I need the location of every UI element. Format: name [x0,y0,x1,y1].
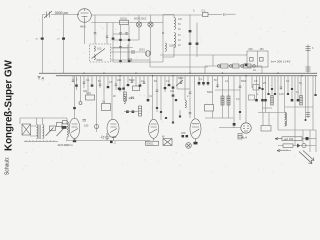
wire vertical x42.5 (antenna lead) [42,15,44,74]
mains wire 2 [278,145,316,147]
wire drop x246 to tube V5 [245,76,247,123]
antenna coil ladder vertical x163 [162,15,164,63]
resistor box row1 [221,64,229,68]
wire coil top connect [163,15,174,58]
wire y107 right [285,106,313,108]
resistor box dial a [50,126,56,130]
capacitor blob x92 [91,85,94,87]
cap blob at rail x111 [110,141,113,143]
wire drop x161 [160,76,162,120]
row wire y66 [205,65,262,67]
resistor vertical hatched x222.5 [221,96,224,105]
riser to lamp L1 [139,15,151,22]
blob x176 [175,99,177,101]
wire drop x165 [164,76,166,92]
contact circle S2 [230,65,233,68]
variable arrow at y84 [176,80,183,86]
wire drop x112 (to tube V2) [111,76,113,119]
wire drop x124 [123,76,125,96]
wire drop x262.5 [262,76,264,113]
junction dot x163 [162,32,164,34]
capacitor blob x128 [127,84,130,86]
capacitor blob x165 [164,87,167,89]
wire drop x100 [99,76,101,88]
svg-text:500: 500 [249,48,254,51]
resistor box B2a [133,86,140,91]
resistor box row2 [233,64,240,68]
wire drop x199 [198,76,200,86]
mains feed arrow [275,138,282,140]
capacitor blob x113 [112,38,115,40]
lamp drop extensions [139,33,151,55]
bead x262.5 [261,88,263,90]
beads on row y40 [119,39,130,41]
cathode blob V2 [73,140,76,142]
tube V6 output (top view circle) [241,123,251,133]
tap value labels [178,18,183,47]
wire plate of V1 to right [91,14,202,16]
resistor box dial b [57,123,63,127]
wire drop x313 [312,76,314,130]
mains wire 3 [277,150,291,152]
wire drop x84 [83,76,85,88]
tube V1 mixer (top circle) [78,9,92,23]
wire osc to right y60 [111,59,151,61]
capacitor x217.5 [216,85,219,86]
wire y90 mid [215,89,240,91]
capacitor blob x262.5 [261,99,264,101]
contact circle S3 [241,65,244,68]
capacitor blob x208 [207,82,210,84]
capacitor blob x140 [139,85,142,87]
tube V5 [190,119,201,142]
oscillator dashed box [90,44,111,62]
capacitor blob x203.5 [202,82,205,84]
wire osc to right y48 [111,47,129,49]
svg-text:50011: 50011 [147,142,155,146]
trimmer capacitor on antenna lead [35,38,44,41]
coil L-osc upper [94,46,95,51]
coil x185 [185,100,186,108]
wire x222.5 to row [222,105,224,118]
bead x166 low [165,117,167,119]
wire drop x212.5 [212,76,214,105]
resistor R-top (box at end of plate wire) [202,9,209,17]
resistor vertical hatched x125 [124,92,127,101]
lamp L2 (circle-cross) [148,22,153,27]
bead x161 low [160,111,162,113]
bead x268.5 [267,93,269,95]
wire row y118 mid [205,117,234,119]
wire drop x88 [87,76,89,95]
wire drop x177 [176,76,178,89]
switch row wire y55 [160,54,247,56]
trimmer capacitor on x63.5 lead [57,38,66,41]
wire drop x120 [119,76,121,92]
bead x315.5 [314,94,316,96]
marks near x184 [182,135,189,137]
dial scale line [24,141,58,143]
wire drop x136 [135,76,137,86]
resistor box under V4 [146,141,159,145]
variable arrow in osc box [92,49,106,59]
variable arrow dial a [46,128,54,137]
svg-text:100: 100 [97,47,102,51]
small tube symbol on x96.5 [95,125,99,129]
dark mark left of box [245,64,248,67]
wire drop x295 [294,76,296,130]
resistor vertical hatched x301 [300,96,303,106]
capacitor x157 [156,90,159,91]
vertical x303 lower [302,130,304,144]
wire vertical x190 [189,15,191,74]
blob under V5 [194,142,198,145]
resistor box B1a [86,92,95,100]
bead x173 lower [172,122,174,124]
scattered value labels band [76,77,302,85]
capacitor x240 [239,86,242,87]
capacitor C on x190 lower [189,43,192,45]
capacitor C-osc2 (on y60) [129,58,131,62]
trimmer T-osc (hatched circle) [145,51,151,57]
coupling box x252 lower [249,95,255,100]
wire drop x308 below bus [307,76,309,118]
wire drop x203.5 [203,76,205,86]
grid cap marks left of V2 [62,121,68,129]
capacitor x116 [115,84,118,85]
resistor vertical hatched x272 [271,96,274,106]
capacitor blob x234 low [233,123,236,126]
wire end segment [226,13,236,15]
svg-text:220: 220 [181,131,186,135]
capacitor blob x120 [119,88,122,90]
blob x173 low [172,95,175,97]
main bus upper [39,72,317,74]
capacitor C-ant (series, variable) [44,11,52,18]
wire drop x222.5 [222,76,224,106]
output transformer (two windings) [285,112,287,126]
ladder row y62 [113,61,163,63]
capacitor blob x173 [172,87,175,89]
capacitor on x107 [106,36,109,37]
wire drop x234 [233,76,235,128]
bias resistor under V6 [238,134,242,140]
capacitor x84 [83,82,86,83]
electrolytic bars on x308 low [306,113,310,117]
bead x240 low [239,111,241,113]
svg-text:AK2: AK2 [80,25,86,29]
vertical x295 lower [294,130,296,146]
svg-text:100: 100 [169,44,174,48]
capacitor on x95 [94,33,97,34]
wire drop x256.5 [256,76,258,101]
svg-text:gez 200: gez 200 [284,137,294,141]
wire drop x275 [274,76,276,95]
svg-text:20011: 20011 [120,17,128,21]
wire drop x76.5 [76,76,78,90]
coil x124 [124,96,125,104]
bead x259.5 [258,87,260,89]
svg-text:450: 450 [260,48,265,51]
svg-text:0,25: 0,25 [279,93,284,96]
wire drop x173 [172,76,174,90]
wire vertical x63.5 [63,15,65,74]
bead x157 low [156,107,158,109]
resistor R-screen (box on y22.5 row) [120,17,129,25]
voltage dropper box (gez 200) [282,137,302,141]
wire drop x74.5 to tube V2-grid [74,76,76,119]
wire drop x284.5 [284,76,286,112]
svg-text:Kongreß-Super GW: Kongreß-Super GW [4,59,15,151]
capacitor blob x169 [168,84,171,86]
wire drop x92 [91,76,93,86]
ladder row y47.5 [113,47,133,49]
contact square a [250,58,254,62]
wire drop x144 [143,76,145,84]
wire drop x194.5 to tube V4 [194,76,196,119]
capacitor x281 [280,87,283,88]
dial scale ticks [26,140,54,141]
wire x180? short [179,110,181,116]
wire coil leads [20,118,67,141]
wire drop x228.5 [228,76,230,106]
capacitor x132 [131,81,134,82]
wire drop x148 [147,76,149,99]
svg-text:Schaub:: Schaub: [5,157,11,175]
capacitor x181 [180,82,183,83]
wire screen row y22.5 [91,22,163,24]
wire drop x80.5 [80,76,82,102]
wire box to coil [30,126,37,136]
ground symbol mid [105,133,110,140]
capacitor C on x190 upper [189,30,192,32]
rectifier circle row2 [297,144,306,148]
capacitor blob x199 [198,82,201,84]
wire vertical x205 to bus [204,66,206,73]
IF pair marks x127-135 [126,111,134,113]
vertical x310 lower [309,130,311,152]
wire horizontal y130 right [278,129,313,131]
svg-text:A: A [41,77,45,81]
wire vertical x107 [106,23,108,45]
svg-text:300: 300 [83,90,88,93]
svg-text:5000: 5000 [178,77,184,80]
bead x292 [291,88,293,90]
wire drop x278 [277,76,279,130]
coil L-osc lower [94,55,95,60]
wire x96.5 long drop [96,76,98,132]
wire drop x132 [131,76,133,83]
capacitor blob x298 [297,99,300,101]
svg-text:5002 5002: 5002 5002 [134,17,147,21]
wire x173 extend [172,90,174,122]
wire drop x259.5 [259,76,261,89]
lamp drops [139,27,151,33]
resistor mains b [283,144,293,147]
svg-text:5000: 5000 [129,79,135,82]
bead x288 [287,93,289,95]
wire drop x265.5 [265,76,267,113]
svg-text:44,5-2000 m: 44,5-2000 m [58,143,74,147]
capacitor x100 [99,84,102,85]
wire drop x116 [115,76,117,90]
svg-text:,m: ,m [35,38,38,41]
bead x180 low [179,116,181,118]
ticks on wire3 [281,149,287,150]
wire drop x108 [107,76,109,88]
capacitor blob x76.5 [75,85,78,87]
wire vertical x95 [94,15,96,44]
wire drop x169 [168,76,170,86]
resistor box row3 [244,64,252,68]
svg-text:4V: 4V [253,69,256,72]
resistor vertical hatched x228.5 [227,96,230,105]
ant transformer coil a [37,125,38,139]
capacitor blob x148 [147,99,150,101]
capacitor C-osc1 (on y52) [132,50,134,54]
svg-text:AL4: AL4 [242,136,248,140]
scattered value labels band low [83,90,299,101]
wire drop x152.5 to tube V3 [152,76,154,119]
svg-text:180: 180 [84,124,89,128]
wire drop x272 [271,76,273,105]
wire drop x298 [297,76,299,101]
junction dot x305.5 [305,119,307,121]
wire drop x128 [127,76,129,86]
variable arrow dial b [57,128,65,137]
svg-text:+2: +2 [101,136,105,140]
wire drop x190 below bus [189,76,191,118]
svg-text:5000: 5000 [241,80,247,83]
capacitor x144 [143,82,146,83]
svg-text:100: 100 [178,18,183,21]
svg-text:100: 100 [117,79,122,82]
svg-text:5000 cm: 5000 cm [55,11,68,15]
arrow on wire3 [277,149,280,151]
electrolytic chain top [306,45,311,74]
ground mark near A [38,77,41,80]
coil L-bf (bumps) [165,43,174,51]
wire drop x281 [280,76,282,90]
wire vertical x128 [127,45,129,61]
heater rail y140.5 [66,140,150,142]
mains cord diagonal 2 [303,151,314,161]
tube V3 [107,119,119,140]
svg-text:,m: ,m [57,38,60,41]
capacitor C-top inline [224,13,226,16]
wire drop x208 [207,76,209,86]
ladder row y34 [113,33,129,35]
coil L-ant tapped (bumps at x174) [174,18,176,48]
junction dots band4 [222,73,303,77]
wire x212.5 to row [212,111,214,118]
wire drop x252 [251,76,253,88]
riser to field coil [263,113,269,126]
tuning coil left of V2 [67,122,68,138]
wire drop x288 [287,76,289,95]
transformer core lines [39,125,40,140]
junction dots band3 [172,73,190,77]
capacitor blob x265.5 [264,99,267,101]
wire after R-top [208,14,222,16]
svg-text:2001: 2001 [139,48,145,52]
svg-text:5000: 5000 [97,58,103,62]
coupling box x252 [253,85,259,91]
capacitor x73 [72,80,75,81]
wire into V6 left [219,127,241,129]
capacitor right of V2 [83,120,87,122]
ant transformer coil b [43,125,44,139]
wire drop x292 [291,76,293,101]
contact square b [260,58,264,62]
contact circle S4 [253,65,256,68]
dial lamp circle [186,143,192,149]
wire vertical x213 up [212,55,214,66]
wire vertical x113 [112,23,114,45]
tube V4 [149,119,159,140]
wire antenna top [43,14,79,16]
wire drop x140 [139,76,141,86]
bead x272 [271,88,273,90]
bead x275 [274,93,276,95]
wire drop x301 [300,76,302,105]
vertical x316 lower [313,130,316,152]
wire vertical x150 [149,57,151,68]
resistor box B4a [205,105,214,112]
wire horizontal y89 [177,88,190,90]
wire x228.5 to row [228,105,230,118]
wire drop x157 [156,76,158,112]
wire vertical x197 [196,23,198,58]
wire row1 tail [302,138,316,140]
svg-text:200: 200 [112,135,117,139]
wire y67 to IF section [150,66,208,68]
capacitor x190 low [189,113,192,114]
wire drop x104 [103,76,105,104]
capacitor blob x256.5 [255,99,258,101]
main bus lower [56,75,317,77]
svg-text:b+= 200 (-) 4V: b+= 200 (-) 4V [271,60,290,64]
wire drop x305.5 [305,76,307,120]
capacitor blob x108 [107,86,110,88]
capacitor blob x74.5 [73,107,76,109]
junction dots on bus (left group) [83,73,120,77]
small trimmer circle x80.5 [79,102,82,105]
ladder row y40 [113,39,139,41]
beads on row y62 [119,60,130,62]
frame aerial box [22,124,31,135]
wire linking IF marks [124,111,138,113]
bead pair x119-124 [118,88,125,90]
field coil box [261,126,271,132]
capacitor on x197 [196,43,199,45]
svg-text:100: 100 [170,90,175,93]
wire drop x185 [184,76,186,100]
resistor box B1b [102,101,111,111]
dark mark row1 [306,137,309,140]
wire drop x217.5 [217,76,219,88]
junction dots band2 [135,73,153,77]
coil small x130 [129,98,134,99]
tube V2 (AK2) [69,118,80,140]
resistor vertical hatched x140 [139,106,142,116]
caps on row y47.5 [119,46,122,47]
svg-text:5000: 5000 [207,91,213,94]
capacitor x190 below bus [189,92,192,93]
power switch box [247,51,268,67]
wire drop x315.5 [315,76,317,96]
wire drop x73 [72,76,74,82]
